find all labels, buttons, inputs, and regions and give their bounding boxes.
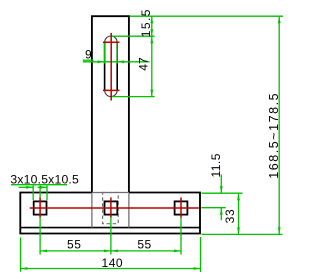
slot right side <box>116 42 118 90</box>
dim line 11.5 <box>220 175 222 194</box>
slot bottom tick <box>103 89 120 91</box>
label arrows <box>26 186 33 189</box>
140 arrows <box>21 267 28 270</box>
svg-text:55: 55 <box>67 237 81 251</box>
svg-text:140: 140 <box>102 256 124 270</box>
hole 2 vertical centerline <box>110 197 112 217</box>
svg-text:3x10.5x10.5: 3x10.5x10.5 <box>10 172 79 186</box>
ext line hole centerline right <box>201 207 225 209</box>
dim line 15.5 / 47 <box>151 16 153 96</box>
svg-text:168.5~178.5: 168.5~178.5 <box>267 92 281 179</box>
label arrow line 1 <box>19 186 34 188</box>
47 arrows <box>150 36 153 43</box>
hole 1 vertical centerline <box>39 197 41 217</box>
dim line 168.5~178.5 <box>278 16 280 234</box>
slot top arc <box>105 36 117 42</box>
55 dim line <box>40 250 181 252</box>
green arrowheads <box>21 16 281 270</box>
slot bottom arc <box>105 90 117 96</box>
label arrow line 2 <box>38 186 47 188</box>
ext line bar bottom right <box>202 233 283 235</box>
dim line 33 <box>238 193 240 234</box>
column hidden left edge (gray) <box>91 193 93 227</box>
140 dim line <box>21 268 201 270</box>
hole 3 vertical centerline <box>180 197 182 217</box>
hole center ext verticals <box>39 186 41 198</box>
slot vertical centerline <box>110 33 112 101</box>
svg-text:47: 47 <box>137 57 151 71</box>
slot top tick <box>103 41 120 43</box>
ext line slot bottom <box>112 96 155 98</box>
column hidden right edge (gray) <box>128 193 130 227</box>
svg-text:11.5: 11.5 <box>209 153 223 177</box>
hidden slot dashed rectangle <box>103 193 119 224</box>
11.5 arrows <box>220 186 223 193</box>
square hole 2 <box>105 201 118 214</box>
holes long centerline <box>30 207 199 209</box>
dimension texts <box>10 8 281 270</box>
square hole 1 <box>34 201 47 214</box>
vertical bar outline <box>92 16 129 192</box>
ext line bar top right <box>202 192 243 194</box>
slot left side <box>104 42 106 90</box>
svg-text:9: 9 <box>85 48 92 62</box>
140 ext verticals <box>20 237 22 271</box>
55 arrows <box>40 250 47 253</box>
slot side green overlays <box>104 42 106 63</box>
label underline <box>11 184 67 186</box>
ext line slot top <box>111 35 155 37</box>
square hole 3 <box>175 201 188 214</box>
9 dim line <box>83 61 150 63</box>
red centerline layer <box>30 33 199 218</box>
svg-text:55: 55 <box>137 237 151 251</box>
ext line top edge y16 <box>130 15 283 17</box>
9 dim arrows <box>98 60 105 63</box>
svg-text:33: 33 <box>223 209 237 224</box>
9 dim underline <box>83 59 94 61</box>
bottom bar outline <box>20 193 200 234</box>
green dimension layer <box>11 16 283 272</box>
33 arrows <box>237 193 240 200</box>
bottom bar inner bottom line <box>20 227 200 229</box>
label ext verticals <box>32 186 34 201</box>
hidden bar top under column (gray) <box>92 192 129 194</box>
svg-text:15.5: 15.5 <box>139 8 153 37</box>
168 arrows <box>278 16 281 23</box>
15.5 arrows <box>150 16 153 23</box>
